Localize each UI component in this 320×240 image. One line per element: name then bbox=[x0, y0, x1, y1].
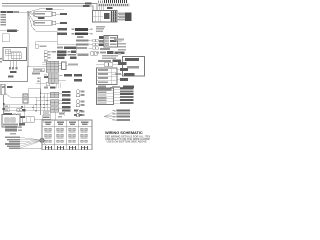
wire battery diagonal bbox=[5, 93, 40, 97]
svg-text:WIRING SCHEMATIC: WIRING SCHEMATIC bbox=[105, 130, 143, 135]
connector grid G0 upper bbox=[46, 61, 59, 72]
label right of switch bbox=[44, 76, 50, 78]
wire x28 link bbox=[27, 89, 29, 95]
subtitle lines bbox=[105, 134, 153, 143]
wire drops to G1 bbox=[56, 83, 60, 89]
battery tall box bbox=[1, 84, 5, 95]
comb pin drops bbox=[100, 6, 104, 10]
tiny text pair y55-59 bbox=[102, 55, 118, 59]
tiny note block bbox=[96, 26, 105, 32]
assembly inner box 1 bbox=[5, 118, 10, 123]
label on bus 2 bbox=[83, 5, 90, 7]
battery ground drop bbox=[3, 95, 5, 115]
wire branch y41.5 bbox=[36, 42, 58, 45]
gauge row r2 y51 bbox=[44, 50, 76, 53]
label right of bracket bbox=[68, 64, 78, 66]
label row y87 bbox=[44, 86, 56, 88]
relay cover box small bbox=[2, 34, 9, 42]
gauge row r4 y57 bbox=[44, 57, 77, 60]
speaker pair 1 bbox=[76, 90, 84, 97]
wire node to box B2 bbox=[28, 12, 34, 22]
wire node down-right diagonal bbox=[28, 12, 76, 44]
wire junction right bbox=[28, 66, 46, 68]
bottom grid outer bbox=[42, 120, 92, 150]
grid row1 text marks bbox=[45, 132, 88, 133]
G4 inline marks bbox=[44, 75, 63, 77]
grommet bbox=[40, 138, 44, 142]
labels right of G4 row2 bbox=[74, 79, 82, 82]
table A bbox=[97, 68, 118, 85]
row2 labels y33 bbox=[58, 33, 93, 36]
center-right 3row block: left gray labels bbox=[76, 40, 89, 50]
small link boxes bbox=[93, 39, 99, 49]
sensor twin boxes bbox=[91, 52, 98, 56]
motor symbol circles bbox=[16, 108, 22, 111]
relay inner box B bbox=[11, 53, 21, 59]
relay box 2 bbox=[22, 117, 34, 123]
junction at node2 bbox=[27, 66, 28, 67]
twin box row y63 bbox=[96, 62, 127, 66]
inline fuse on drop bbox=[3, 103, 5, 105]
motor dark mark bbox=[23, 109, 26, 112]
grid bottom row divider bbox=[42, 144, 92, 146]
label under ECU bbox=[100, 48, 110, 50]
grid column dividers bbox=[55, 120, 79, 150]
wire label-row to node bbox=[19, 11, 28, 13]
mesh junction dots bbox=[23, 92, 47, 111]
relay bottom label bbox=[10, 71, 17, 73]
upper branch label bbox=[46, 8, 64, 10]
bottom-left assembly box bbox=[2, 115, 20, 128]
wire from relay2 bbox=[34, 119, 44, 123]
wires G-right bbox=[59, 94, 63, 109]
component box B2 bbox=[34, 21, 60, 25]
assembly dark label right bbox=[21, 116, 26, 118]
table A labels right bbox=[117, 68, 128, 81]
grid header divider bbox=[42, 126, 92, 128]
grommet tails bbox=[42, 140, 48, 146]
fuse box F2 bbox=[35, 45, 47, 49]
connector grid G4 bbox=[48, 74, 58, 84]
assembly label top bbox=[4, 113, 21, 115]
node splice S1 bbox=[27, 12, 28, 13]
sensor left gray label bbox=[78, 54, 89, 56]
row1 labels y29 bbox=[58, 28, 93, 31]
fuse table top-right bbox=[113, 12, 132, 21]
relay contact symbols bbox=[9, 67, 17, 69]
connector comb lower band bbox=[98, 4, 130, 7]
wire node to mid label bbox=[28, 12, 38, 18]
table B label stack bbox=[120, 87, 134, 104]
wire drop to sensor row bbox=[76, 45, 78, 55]
main left bus y81 bbox=[0, 67, 28, 82]
label right of battery bbox=[7, 86, 13, 88]
switch symbols left bbox=[21, 106, 23, 108]
label right of B1 bbox=[60, 13, 67, 15]
table B bbox=[97, 88, 114, 105]
relay inner box A bbox=[5, 50, 11, 54]
tiny label above G4 bbox=[40, 70, 44, 72]
left bus label bbox=[7, 29, 18, 31]
legend fan wires bbox=[20, 137, 40, 148]
relay cross wires bbox=[5, 50, 21, 61]
washer pump box labels bbox=[5, 106, 8, 111]
table B wires right bbox=[114, 90, 121, 104]
grid symbols row3 bbox=[45, 140, 88, 142]
svg-text:USED ON BOTTOM SIDE ABOVE: USED ON BOTTOM SIDE ABOVE bbox=[107, 139, 148, 143]
tiny marks under gauge rows bbox=[44, 60, 48, 62]
mesh wires vertical bbox=[24, 93, 47, 116]
comb lower bars bbox=[99, 4, 128, 6]
wires labels to ECU bbox=[89, 41, 100, 49]
connector comb upper bars bbox=[98, 0, 127, 3]
relay edge marks bbox=[0, 58, 2, 63]
grid wires in top bbox=[64, 108, 70, 116]
right module box bbox=[123, 57, 145, 77]
wire top bus 2 bbox=[2, 6, 93, 11]
wire ECU right bbox=[118, 40, 123, 42]
bracket right of option boxes bbox=[56, 112, 66, 120]
fuse row under assembly bbox=[3, 123, 25, 125]
mesh extension left bbox=[4, 105, 24, 111]
title WIRING SCHEMATIC bbox=[105, 130, 143, 135]
connector grid G2 bbox=[50, 100, 59, 106]
label below comb bbox=[107, 7, 113, 9]
wire top bus 1 bbox=[2, 4, 97, 11]
connector block C1 bbox=[93, 11, 118, 23]
antenna fan wires bbox=[104, 111, 117, 121]
connector grid G1 bbox=[50, 92, 59, 98]
wires G4 to labels bbox=[58, 76, 66, 81]
washer pump boxes bbox=[5, 105, 10, 112]
legend rows bbox=[5, 137, 20, 149]
assembly inner box 2 bbox=[11, 118, 16, 123]
wire node to upper label bbox=[28, 9, 46, 12]
mid branch label bbox=[38, 17, 45, 19]
connector grid G3 bbox=[50, 107, 59, 113]
small gray label under rows bbox=[77, 36, 84, 38]
relay pin drops bbox=[10, 61, 16, 68]
speaker pair 2 bbox=[76, 100, 84, 107]
connector marks above grid bbox=[74, 110, 82, 117]
wire into module bbox=[112, 73, 124, 75]
option boxes above grid bbox=[42, 112, 51, 120]
sensor long row y52 bbox=[96, 51, 125, 54]
inline device box bbox=[33, 68, 44, 72]
mesh vertical x40 bbox=[40, 89, 42, 116]
row y86 right bbox=[110, 85, 134, 88]
mesh wires horizontal bbox=[20, 93, 50, 111]
junction blob on drop bbox=[3, 108, 6, 110]
relay outer box bbox=[3, 48, 27, 61]
grid connector glyphs bottom row bbox=[46, 146, 88, 150]
ECU box bbox=[99, 36, 118, 48]
gray label under tableA bbox=[98, 86, 106, 88]
grid header texts bbox=[45, 122, 89, 126]
component box B1 bbox=[34, 12, 60, 16]
speaker pair 3 bbox=[76, 110, 84, 117]
label under device bbox=[32, 72, 40, 74]
pin marks right of C1 bbox=[118, 13, 121, 20]
relay bottom label 2 bbox=[8, 76, 14, 78]
tiny label in bracket bbox=[58, 113, 64, 118]
wire y88 horizontal bbox=[28, 77, 41, 89]
inline fuse box row y83 bbox=[36, 82, 54, 86]
top-left label column bbox=[1, 14, 7, 26]
right tiny rows x118 bbox=[114, 39, 126, 55]
top-left label row bbox=[1, 11, 20, 13]
grid row2 text marks bbox=[45, 138, 88, 139]
left bus y30 bbox=[0, 30, 7, 32]
grid symbols row1 bbox=[45, 128, 88, 131]
pump box bbox=[23, 94, 28, 103]
labels right of grids bbox=[62, 91, 71, 112]
grid symbols row2 bbox=[45, 134, 88, 137]
gauge row r1 y47 bbox=[57, 46, 76, 49]
antenna fan labels bbox=[113, 109, 131, 121]
gray label rows bottom-left bbox=[5, 126, 22, 134]
wire node vertical drop bbox=[27, 12, 29, 66]
label right of B2 bbox=[60, 22, 67, 24]
bracket box right of G0 bbox=[59, 62, 69, 70]
sensor long row y60 bbox=[98, 59, 126, 62]
gauge row r3 y54 bbox=[44, 53, 76, 56]
ignition switch symbols bbox=[38, 78, 40, 83]
label on bus 1 bbox=[85, 2, 92, 4]
wire node to box B1 bbox=[28, 12, 34, 13]
labels right of G4 row1 bbox=[64, 74, 82, 77]
bottom left rail bbox=[20, 148, 42, 150]
ticks right of junction bbox=[42, 63, 46, 65]
